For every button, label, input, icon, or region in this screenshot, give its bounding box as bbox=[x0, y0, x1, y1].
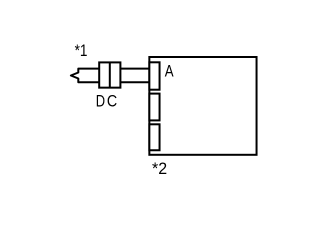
divider between connector D and connector C bbox=[109, 62, 111, 87]
svg-text:*1: *1 bbox=[75, 42, 88, 61]
svg-text:C: C bbox=[107, 92, 117, 110]
terminal pin 3 bbox=[149, 124, 159, 150]
terminal A (pin 1) bbox=[149, 62, 159, 89]
svg-text:*2: *2 bbox=[152, 160, 167, 179]
svg-text:D: D bbox=[96, 92, 105, 111]
terminal pin 2 bbox=[149, 94, 159, 121]
wire from harness arrow *1 to terminal A, drawn as outlined tube with arrow tip bbox=[71, 69, 149, 83]
svg-text:A: A bbox=[165, 62, 175, 81]
component box *2 (ECU) bbox=[149, 57, 256, 155]
connector pair D/C body bbox=[99, 62, 120, 87]
